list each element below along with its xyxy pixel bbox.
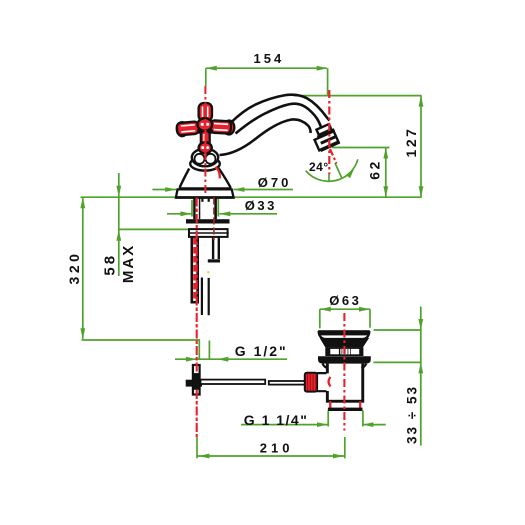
aerator (spout outlet) rotated 24° [311,123,340,152]
dim G1 1/4 right line [362,424,385,426]
arrow 127 bottom [419,186,424,197]
dim 33÷53 line [420,307,422,446]
bonnet petals [195,154,205,164]
left supply tube walls [191,237,194,303]
plug top disc [318,330,370,335]
dim G1 1/4 left line [241,424,328,426]
arrow 320 bottom [80,328,85,339]
ext Ø63 left [319,309,321,328]
outlet angled centerline [330,149,337,164]
arrow Ø33 right [219,211,230,216]
ref line outlet tip for 62 [332,147,390,149]
pop-up clamp bar [186,380,202,387]
spout middle contour [236,104,322,134]
red knurled knob [305,373,317,392]
ref 33÷53 bottom [374,361,421,363]
shank right wall [214,198,217,220]
body spout red curve [215,167,220,178]
dim Ø63 line [320,308,370,310]
drain centerline [343,313,345,431]
dim 320 line [82,197,84,339]
dim 210 line [198,455,345,457]
body flare sides [180,168,231,188]
green arrowheads [80,66,423,459]
angle leg slanted [335,163,342,179]
arrow 33÷53 bottom (up) [418,362,423,373]
bonnet lower ellipse [190,157,220,171]
svg-text:62: 62 [366,159,382,180]
mounting plane line right [233,196,421,198]
handle hub [198,118,213,131]
arrow 58 top (down) [116,186,121,197]
faucet main centerline [204,86,206,196]
arrow 62 top [383,148,388,159]
arrow 127 top [419,96,424,107]
arrow 210 right [333,454,344,459]
inset section edges [329,402,331,408]
ext line B for G1/2 [208,341,210,360]
svg-text:127: 127 [403,127,419,158]
handle cross: left spoke [176,121,199,137]
dim Ø33 left arrow line [167,213,191,215]
horizontal rod left segment [201,380,266,384]
dim 320 bottom ref with corner [82,340,200,359]
red gasket edges [330,401,360,408]
shank left wall [193,198,195,220]
ext Ø33 left [191,200,193,217]
svg-text:Ø70: Ø70 [258,175,292,190]
thin hose left [201,278,203,316]
ref line 58 bottom [119,228,189,230]
left supply centerline upper [196,198,198,373]
svg-text:24°: 24° [309,160,329,174]
handle collar [197,129,213,133]
svg-text:210: 210 [260,440,294,455]
arrow G1/2 right (left-pointing) [217,357,228,362]
outlet vertical centerline [328,90,330,174]
ext Ø63 right [369,309,371,328]
base plate bottom edge [176,196,234,199]
plug trapezoid [320,338,370,348]
dim Ø33 right arrow line [219,213,277,215]
left supply centerline lower [196,390,198,437]
svg-text:G 1/2": G 1/2" [235,343,288,359]
hose top ticks [201,198,203,202]
svg-text:320: 320 [66,251,82,285]
handle cross: top spoke [199,103,212,121]
base plate [176,189,234,197]
angle leg vertical [328,174,330,181]
red seal arc inside body [329,377,331,387]
arrow G1/2 left (right-pointing) [186,357,197,362]
flange band [318,356,371,363]
svg-text:Ø33: Ø33 [245,198,277,213]
arrow 58 bottom (up) [116,230,121,241]
svg-text:154: 154 [254,51,285,66]
arrow Ø63 left [320,307,331,312]
arrow Ø33 left [180,211,191,216]
dim Ø70 right arrow line [233,189,293,191]
port box lines [317,373,327,391]
handle lower spoke [201,131,210,148]
svg-text:MAX: MAX [120,244,137,283]
arrow 62 bottom [383,186,388,197]
arrow 210 left [198,454,209,459]
right supply tube walls [212,237,214,259]
handle screw cover knob [199,142,212,153]
dim G1/2 line [175,358,287,360]
drain body walls [326,364,329,374]
svg-text:33 ÷ 53: 33 ÷ 53 [404,385,419,444]
left tube red fill [193,238,196,301]
bonnet upper ellipse [192,149,218,167]
dim 154 ext left [205,68,207,86]
dim 127 line [420,96,422,198]
svg-text:G 1 1/4": G 1 1/4" [244,412,309,428]
tailpiece bottom band [328,408,363,411]
ext G1 1/4 right [362,411,364,427]
svg-text:Ø63: Ø63 [329,293,361,308]
right supply centerline [213,198,215,241]
slotted band [325,347,363,356]
dim 154 line [206,67,327,69]
ext 210 left [196,437,198,458]
arrow Ø70 right [233,187,244,192]
body shoulder [326,400,364,403]
yellow dot [207,271,209,273]
dim 154 ext right [327,68,329,95]
left tube bottom cap [191,301,200,304]
right tube bottom cap [208,259,220,262]
arrow 320 top [80,197,85,208]
thin hose right [208,278,210,315]
handle cross: right spoke [210,120,235,135]
ref line top of spout for 127 [294,95,422,97]
ext Ø33 right [217,199,219,217]
arrow 154 left [206,66,217,71]
locknut [186,219,230,223]
svg-text:58: 58 [101,253,118,276]
dim Ø70 left arrow line [152,189,176,191]
pop-up rod vertical [193,365,200,395]
left hose inner wall line [199,198,201,220]
arrow 154 right [317,66,328,71]
mounting plane line left [81,196,177,198]
arrow Ø63 right [359,307,370,312]
spout top contour [231,95,330,123]
base flare bottom line [179,187,232,189]
spout bottom contour [220,119,311,155]
ext G1 1/4 left [327,411,329,427]
angle 24 arc [306,159,358,181]
dim 58 line [118,173,120,276]
arrow G1 1/4 left (right-pointing) [317,422,328,427]
ref 33÷53 top [374,329,421,331]
arrow on 24° arc [346,166,356,178]
ext 210 right [344,437,346,458]
arrow G1 1/4 right (left-pointing) [362,422,373,427]
horizontal rod right segment [269,381,306,385]
dim 62 line [385,148,387,198]
arrow 33÷53 top (down) [418,319,423,330]
arrow Ø70 left [165,187,176,192]
washer [189,229,228,237]
